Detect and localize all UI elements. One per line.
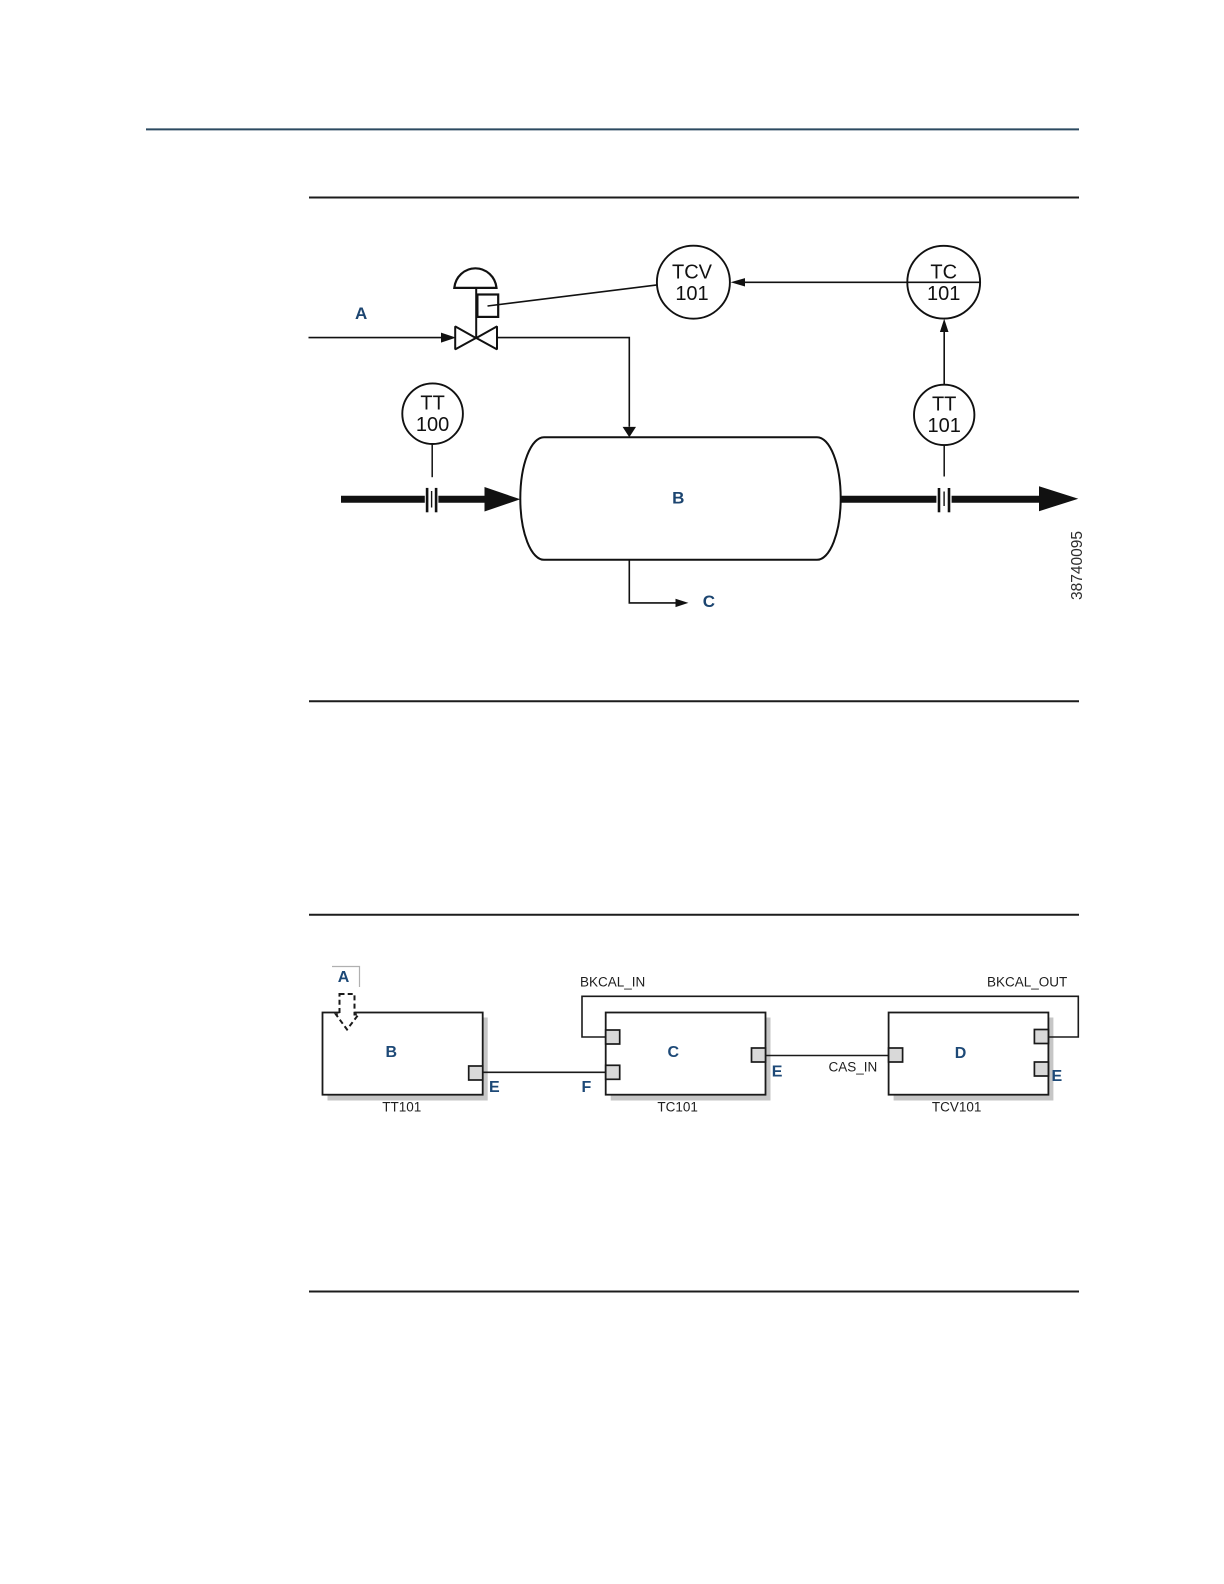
svg-text:C: C xyxy=(703,592,715,611)
svg-text:D: D xyxy=(955,1045,967,1062)
svg-text:BKCAL_IN: BKCAL_IN xyxy=(580,975,645,990)
svg-text:100: 100 xyxy=(416,414,449,436)
svg-text:TC101: TC101 xyxy=(657,1100,698,1115)
svg-text:TT101: TT101 xyxy=(382,1100,421,1115)
svg-text:TC: TC xyxy=(930,262,957,284)
svg-text:F: F xyxy=(582,1079,592,1096)
svg-text:TCV101: TCV101 xyxy=(932,1100,982,1115)
svg-text:E: E xyxy=(489,1079,500,1096)
svg-text:B: B xyxy=(672,489,684,508)
svg-text:TT: TT xyxy=(932,394,956,416)
svg-text:38740095: 38740095 xyxy=(1069,531,1086,600)
svg-text:A: A xyxy=(338,969,350,986)
svg-text:TT: TT xyxy=(420,392,444,414)
svg-text:C: C xyxy=(668,1044,680,1061)
svg-text:101: 101 xyxy=(675,283,708,305)
svg-text:B: B xyxy=(386,1044,398,1061)
svg-text:101: 101 xyxy=(928,415,961,437)
svg-text:TCV: TCV xyxy=(672,262,713,284)
svg-text:A: A xyxy=(355,304,367,323)
svg-text:BKCAL_OUT: BKCAL_OUT xyxy=(987,975,1067,990)
svg-text:E: E xyxy=(1052,1068,1063,1085)
svg-text:101: 101 xyxy=(927,283,960,305)
svg-text:E: E xyxy=(772,1064,783,1081)
svg-text:CAS_IN: CAS_IN xyxy=(829,1060,878,1075)
